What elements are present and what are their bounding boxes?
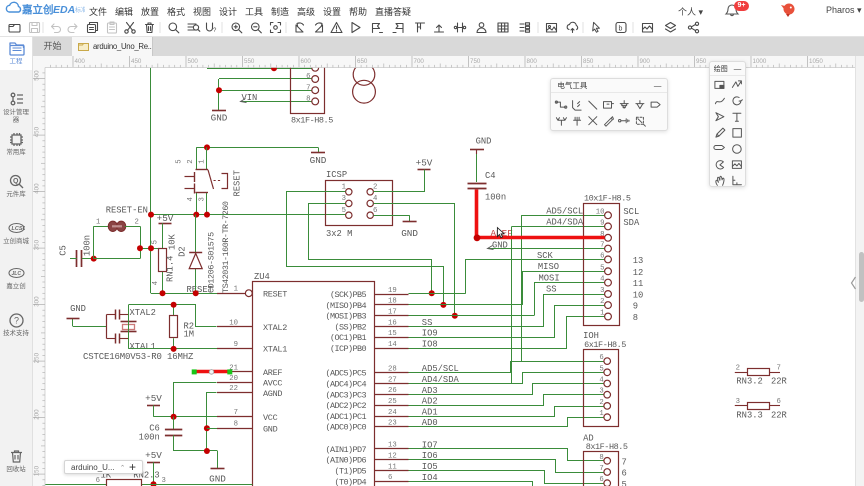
wire vertical to GND below header [218, 79, 220, 110]
svg-text:XTAL1: XTAL1 [263, 345, 287, 355]
svg-text:150: 150 [34, 465, 41, 476]
svg-text:2: 2 [187, 159, 195, 163]
svg-text:100n: 100n [485, 193, 506, 203]
wire AD3 to IOH pin4 [409, 384, 605, 395]
svg-text:3: 3 [162, 477, 166, 485]
svg-text:(ADC0)PC0: (ADC0)PC0 [325, 423, 366, 433]
svg-text:5: 5 [599, 365, 603, 373]
diode D2 [195, 215, 197, 294]
junction C5 node [91, 256, 97, 262]
wire IO5 to AD pin6 [409, 471, 605, 484]
svg-text:22: 22 [229, 385, 238, 393]
svg-text:550: 550 [244, 58, 255, 65]
wire IO7 to AD pin8 [409, 449, 605, 461]
IC right pin 19 (SCK)PB5 [375, 294, 409, 296]
wire C6 to GND node [174, 450, 218, 452]
ground G4 below C6 [217, 451, 219, 468]
resistor RN1.4 10K [159, 249, 167, 272]
IC right pin 16 (SS)PB2 [375, 326, 409, 328]
junction MISO at PB4 [440, 302, 446, 308]
svg-text:6: 6 [306, 73, 310, 81]
svg-text:SS: SS [546, 285, 557, 295]
svg-text:1000: 1000 [753, 58, 767, 65]
svg-text:AD4/SDA: AD4/SDA [546, 218, 584, 228]
svg-text:4: 4 [187, 197, 195, 202]
svg-text:17: 17 [388, 309, 397, 317]
svg-text:ICSP: ICSP [326, 170, 347, 180]
svg-text:C5: C5 [59, 245, 69, 256]
svg-text:7: 7 [306, 84, 310, 92]
IC right pin 6 (T0)PD4 [375, 481, 409, 483]
IC left pin 7 VCC [217, 416, 253, 418]
svg-text:3: 3 [342, 195, 346, 203]
svg-text:AREF: AREF [263, 368, 282, 378]
svg-text:(MISO)PB4: (MISO)PB4 [325, 301, 366, 311]
svg-text:14: 14 [388, 341, 397, 349]
svg-text:8: 8 [599, 454, 603, 462]
svg-text:(T1)PD5: (T1)PD5 [334, 467, 366, 477]
wire AGND down [207, 393, 217, 451]
svg-text:2: 2 [599, 399, 603, 407]
svg-text:9: 9 [633, 302, 638, 312]
svg-text:JLC: JLC [11, 271, 21, 277]
svg-text:6: 6 [600, 252, 604, 260]
svg-text:SCL: SCL [623, 207, 639, 217]
junction RESET-EN x151 [148, 212, 154, 218]
junction RN1.4 bottom [160, 290, 166, 296]
svg-text:SCK: SCK [537, 251, 554, 261]
svg-text:+5V: +5V [416, 157, 433, 168]
wire IO8 to header [409, 317, 605, 349]
svg-text:2: 2 [135, 219, 139, 227]
svg-text:7: 7 [622, 457, 627, 467]
wire AD5/SCL to 10x header pin10 [521, 215, 604, 217]
svg-text:VCC: VCC [263, 413, 278, 423]
svg-text:3: 3 [199, 197, 207, 201]
svg-text:7: 7 [599, 465, 603, 473]
wire SCK to header [409, 293, 466, 295]
resistor RN3.3 22R [735, 405, 747, 407]
svg-text:9: 9 [600, 219, 604, 227]
junction MOSI at PB3 [452, 313, 458, 319]
wire SS to header [409, 295, 605, 327]
svg-text:450: 450 [34, 126, 41, 137]
svg-text:6: 6 [777, 398, 781, 406]
svg-text:GND: GND [310, 155, 327, 166]
svg-text:6: 6 [373, 207, 377, 215]
junction button pin3 [204, 212, 210, 218]
svg-text:?: ? [14, 316, 19, 326]
svg-text:CD1206-S01575: CD1206-S01575 [207, 232, 217, 293]
svg-text:10: 10 [633, 291, 644, 301]
svg-text:400: 400 [34, 183, 41, 194]
capacitor C4 [468, 183, 487, 185]
svg-text:15: 15 [388, 330, 397, 338]
svg-text:8x1F-H8.5: 8x1F-H8.5 [291, 116, 333, 126]
svg-text:(T0)PD4: (T0)PD4 [334, 477, 366, 486]
long vertical wire x=151 [150, 68, 152, 293]
svg-text:250: 250 [34, 352, 41, 363]
junction AREF corner [474, 234, 481, 241]
IC right pin 12 (AIN0)PD6 [375, 459, 409, 461]
svg-text:D2: D2 [178, 246, 188, 257]
svg-text:LCSC: LCSC [11, 226, 25, 232]
junction R2 bottom [171, 346, 177, 352]
mount hole circles [353, 64, 375, 86]
svg-text:13: 13 [633, 256, 644, 266]
button second pole contacts [194, 172, 196, 182]
svg-text:5: 5 [622, 480, 627, 486]
svg-text:26: 26 [388, 387, 397, 395]
wire AD4/SDA to 10x header pin9 [512, 226, 605, 228]
junction button pin4 [193, 212, 199, 218]
svg-text:200: 200 [34, 409, 41, 420]
svg-text:19: 19 [388, 287, 397, 295]
svg-text:700: 700 [414, 58, 425, 65]
svg-text:6: 6 [388, 474, 392, 482]
svg-text:1: 1 [342, 184, 347, 192]
wire bottom rail [45, 484, 107, 486]
svg-text:18: 18 [388, 298, 397, 306]
wire MISO to header [409, 304, 523, 306]
junction R2 top [171, 302, 177, 308]
wire SCK from ICSP pin3 [309, 204, 432, 294]
svg-text:GND: GND [211, 113, 228, 124]
svg-text:11: 11 [633, 279, 644, 289]
wire AD0 to IOH pin1 [409, 418, 605, 427]
junction D2 bottom [193, 290, 199, 296]
IC right pin 11 (T1)PD5 [375, 470, 409, 472]
svg-text:850: 850 [583, 58, 594, 65]
wire AD5/SCL branch [409, 362, 605, 373]
wire MOSI from ICSP pin4 [374, 204, 455, 316]
resistor RN2.3 1K [107, 480, 142, 486]
svg-text:b: b [619, 26, 623, 33]
highlighted AREF net wire thick red [475, 190, 479, 238]
wire AVCC to +5V rail [174, 383, 217, 417]
svg-text:GND: GND [209, 474, 226, 485]
svg-text:嘉立创: 嘉立创 [21, 3, 54, 16]
svg-text:(MOSI)PB3: (MOSI)PB3 [325, 312, 366, 322]
svg-text:6: 6 [96, 477, 100, 485]
svg-text:22R: 22R [771, 377, 788, 387]
svg-text:500: 500 [188, 58, 199, 65]
svg-text:100n: 100n [83, 235, 93, 256]
junction GND node [204, 448, 210, 454]
capacitor C6 [173, 417, 175, 430]
svg-text:RN3.2: RN3.2 [736, 377, 762, 387]
svg-text:GND: GND [476, 137, 492, 147]
svg-text:1: 1 [599, 410, 604, 418]
svg-text:5: 5 [600, 264, 604, 272]
svg-text:3: 3 [599, 388, 603, 396]
svg-text:GND: GND [401, 228, 418, 239]
svg-text:4: 4 [152, 280, 160, 285]
wire IO9 to header [409, 306, 605, 338]
svg-text:3: 3 [600, 287, 604, 295]
IC right pin 14 (ICP)PB0 [375, 348, 409, 350]
svg-text:750: 750 [470, 58, 481, 65]
wire +5V to VCC pin [154, 416, 218, 418]
svg-text:RESET: RESET [232, 170, 242, 196]
junction button top [204, 144, 210, 150]
svg-text:1M: 1M [184, 330, 195, 340]
svg-text:RESET: RESET [263, 289, 287, 299]
svg-text:8: 8 [306, 96, 310, 104]
junction AGND-GND pin [204, 425, 210, 431]
connector POWER 8x1F-H8.5 [291, 59, 325, 114]
svg-text:7: 7 [234, 409, 238, 417]
wire AD4/SDA branch [409, 373, 605, 384]
svg-text:?: ? [213, 28, 217, 34]
svg-text:7: 7 [777, 364, 781, 372]
resistor RN3.2 22R [735, 372, 747, 374]
svg-text:3x2 M: 3x2 M [326, 229, 352, 239]
svg-text:6: 6 [599, 476, 603, 484]
svg-text:ZU4: ZU4 [254, 272, 270, 282]
ground G5 at ICSP [403, 221, 417, 223]
pushbutton TS42031 contacts [196, 147, 198, 169]
resistor R2 1M [173, 305, 175, 316]
svg-text:11: 11 [388, 463, 397, 471]
svg-text:(ADC2)PC2: (ADC2)PC2 [325, 401, 366, 411]
svg-text:MOSI: MOSI [539, 274, 560, 284]
svg-text:5: 5 [342, 207, 346, 215]
svg-text:1: 1 [96, 219, 101, 227]
junction jumper leg [137, 245, 143, 251]
mouse cursor [497, 228, 504, 238]
svg-text:12: 12 [633, 268, 644, 278]
capacitor C5 [76, 250, 78, 267]
IC left pin 8 GND [217, 428, 253, 430]
svg-text:950: 950 [696, 58, 707, 65]
svg-text:RESET-EN: RESET-EN [106, 205, 148, 215]
svg-text:Q: Q [13, 178, 19, 185]
junction SCK at PB5 [429, 290, 435, 296]
svg-text:GND: GND [263, 424, 278, 434]
wire AD1 to IOH pin2 [409, 407, 605, 417]
svg-text:AD1: AD1 [422, 407, 438, 417]
IC left pin 20 AVCC [217, 382, 253, 384]
wire RESET-EN net horizontal [151, 214, 345, 216]
IC left pin 22 AGND [217, 392, 253, 394]
junction top wire [271, 65, 277, 71]
svg-text:(ADC5)PC5: (ADC5)PC5 [325, 369, 366, 379]
junction bottom +5V [151, 481, 157, 486]
wire AD2 to IOH pin3 [409, 395, 605, 406]
svg-text:+5V: +5V [145, 450, 162, 461]
svg-text:12: 12 [388, 453, 397, 461]
svg-text:XTAL2: XTAL2 [263, 323, 287, 333]
junction VCC node [171, 414, 177, 420]
svg-text:AGND: AGND [263, 389, 282, 399]
svg-text:100n: 100n [139, 433, 160, 443]
ground G2 right of button [318, 147, 320, 152]
svg-text:XTAL2: XTAL2 [130, 308, 156, 318]
svg-text:23: 23 [388, 420, 397, 428]
IC ZU4 ATmega328 box [253, 282, 375, 486]
wire jumper pin2 to +5V node [140, 226, 142, 258]
svg-text:2: 2 [736, 364, 740, 372]
svg-text:500: 500 [34, 70, 41, 81]
svg-text:MISO: MISO [538, 262, 559, 272]
wire header pin6 [219, 78, 312, 80]
svg-text:C4: C4 [485, 171, 496, 181]
wire +5V to ICSP pin2 [374, 170, 425, 192]
svg-text:4: 4 [373, 195, 378, 203]
svg-text:28: 28 [388, 366, 397, 374]
svg-text:SDA: SDA [623, 218, 640, 228]
ground G1 below power header [218, 109, 220, 112]
svg-text:650: 650 [357, 58, 368, 65]
svg-text:GND: GND [70, 304, 86, 314]
solder jumper RESET-EN loop [93, 226, 95, 258]
svg-text:350: 350 [34, 239, 41, 250]
svg-text:TS42031-160R-TR-7260: TS42031-160R-TR-7260 [221, 201, 231, 293]
svg-text:+5V: +5V [157, 213, 174, 224]
svg-text:AVCC: AVCC [263, 379, 282, 389]
svg-text:8: 8 [234, 421, 238, 429]
svg-text:(AIN0)PD6: (AIN0)PD6 [325, 456, 366, 466]
IC pin1 RESET with circle [245, 290, 252, 297]
svg-text:16: 16 [388, 319, 397, 327]
svg-text:20: 20 [229, 375, 238, 383]
svg-text:(SCK)PB5: (SCK)PB5 [330, 290, 367, 300]
svg-text:(ADC1)PC1: (ADC1)PC1 [325, 412, 366, 422]
IC left pin 10 XTAL2 [217, 326, 253, 328]
svg-text:+5V: +5V [145, 393, 162, 404]
svg-text:4: 4 [600, 276, 605, 284]
IC left pin 21 AREF [217, 371, 253, 373]
svg-text:(AIN1)PD7: (AIN1)PD7 [325, 445, 366, 455]
wire XTAL1 net [129, 348, 217, 350]
svg-text:RN3.3: RN3.3 [736, 410, 762, 420]
wire GND to header pin7 [488, 248, 605, 250]
wire top net to power header pin5 [207, 68, 312, 70]
wire ICSP pin6 to GND [373, 215, 409, 217]
IC right pin 23 (ADC0)PC0 [375, 426, 409, 428]
svg-text:RN1.4: RN1.4 [166, 256, 176, 282]
selected AREF wire segment [194, 370, 230, 374]
svg-text:EDA: EDA [53, 4, 75, 16]
svg-text:1050: 1050 [809, 58, 823, 65]
svg-text:300: 300 [34, 296, 41, 307]
svg-text:XTAL1: XTAL1 [130, 342, 156, 352]
svg-text:10K: 10K [168, 233, 178, 250]
IC right pin 17 (MOSI)PB3 [375, 315, 409, 317]
svg-text:1: 1 [600, 310, 605, 318]
svg-text:10x1F-H8.5: 10x1F-H8.5 [584, 193, 631, 203]
svg-text:13: 13 [388, 442, 397, 450]
wire XTAL2 net [128, 305, 130, 349]
IC right pin 24 (ADC1)PC1 [375, 416, 409, 418]
svg-text:(SS)PB2: (SS)PB2 [334, 322, 366, 332]
svg-text:CSTCE16M0V53-R0 16MHZ: CSTCE16M0V53-R0 16MHZ [83, 352, 194, 362]
svg-text:8: 8 [633, 313, 638, 323]
svg-text:AD5/SCL: AD5/SCL [546, 207, 583, 217]
svg-text:5: 5 [176, 159, 184, 163]
svg-text:(ADC3)PC3: (ADC3)PC3 [325, 390, 366, 400]
svg-text:1: 1 [199, 159, 207, 164]
IC right pin 28 (ADC5)PC5 [375, 372, 409, 374]
IC right pin 27 (ADC4)PC4 [375, 383, 409, 385]
svg-text:900: 900 [640, 58, 651, 65]
svg-text:2: 2 [373, 184, 377, 192]
wire VIN to header pin8 [241, 101, 312, 103]
svg-text:10: 10 [596, 208, 605, 216]
svg-text:600: 600 [301, 58, 312, 65]
svg-text:3: 3 [736, 398, 740, 406]
svg-text:9: 9 [234, 341, 238, 349]
svg-text:2: 2 [600, 298, 604, 306]
wire MOSI to header [409, 315, 535, 317]
svg-text:10: 10 [229, 319, 238, 327]
junction +5V node x151 [148, 245, 154, 251]
wire GND to crystal [73, 326, 107, 328]
svg-text:7: 7 [600, 242, 604, 250]
svg-text:5: 5 [152, 240, 160, 244]
svg-text:(ICP)PB0: (ICP)PB0 [330, 344, 367, 354]
wire header pin7 [219, 90, 312, 92]
svg-text:6: 6 [622, 469, 627, 479]
svg-text:(ADC4)PC4: (ADC4)PC4 [325, 380, 366, 390]
wire IO6 to AD pin7 [409, 460, 605, 473]
svg-text:27: 27 [388, 376, 397, 384]
IC right pin 26 (ADC3)PC3 [375, 394, 409, 396]
svg-text:6: 6 [599, 354, 603, 362]
IC right pin 18 (MISO)PB4 [375, 304, 409, 306]
IC right pin 13 (AIN1)PD7 [375, 448, 409, 450]
wire IO4 down [409, 482, 533, 486]
svg-text:24: 24 [388, 409, 397, 417]
svg-text:450: 450 [131, 58, 142, 65]
IC right pin 15 (OC1)PB1 [375, 337, 409, 339]
pushbutton S1 top wire to GND [196, 147, 318, 149]
crystal CSTCE16M resonator [106, 315, 108, 339]
wire MISO from ICSP pin1 [287, 192, 444, 305]
svg-text:800: 800 [527, 58, 538, 65]
svg-text:8x1F-H8.5: 8x1F-H8.5 [586, 442, 628, 452]
svg-text:22R: 22R [771, 410, 788, 420]
wire RESET row to IC pin1 [151, 293, 245, 295]
svg-text:400: 400 [75, 58, 86, 65]
svg-text:6x1F-H8.5: 6x1F-H8.5 [584, 340, 626, 350]
junction pin7 branch [216, 87, 222, 93]
svg-text:4: 4 [599, 377, 604, 385]
svg-text:(OC1)PB1: (OC1)PB1 [330, 333, 367, 343]
button actuator [208, 170, 214, 189]
IC right pin 25 (ADC2)PC2 [375, 405, 409, 407]
IC left pin 9 XTAL1 [217, 348, 253, 350]
svg-text:25: 25 [388, 398, 397, 406]
svg-text:1: 1 [234, 286, 239, 294]
svg-text:标准: 标准 [75, 6, 85, 14]
